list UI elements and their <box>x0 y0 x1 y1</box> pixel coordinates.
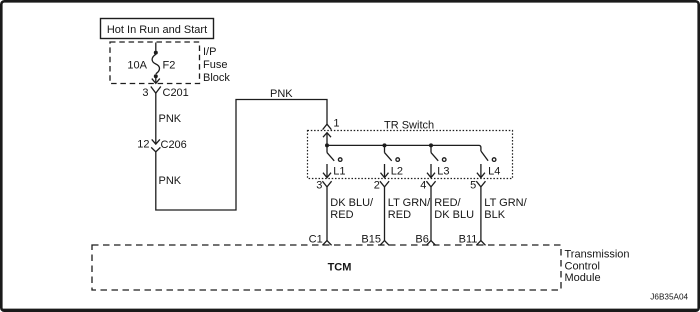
svg-text:C1: C1 <box>309 233 323 245</box>
TCM pin B15 terminal <box>380 241 389 246</box>
connector C206 female terminal (Y) <box>151 147 160 151</box>
wire RED/DK BLU (pin 4 to TCM B6) <box>430 187 432 241</box>
svg-text:B15: B15 <box>361 233 381 245</box>
svg-text:L2: L2 <box>391 166 403 178</box>
fuse F2 10A (element squiggle) <box>152 54 159 74</box>
svg-text:Control: Control <box>565 260 600 272</box>
TCM pin C1 terminal <box>322 241 331 246</box>
junction dot node L3 <box>429 143 433 147</box>
svg-text:5: 5 <box>470 179 476 191</box>
svg-text:C206: C206 <box>161 139 187 151</box>
pin 3 female terminal below TR Switch <box>322 181 331 187</box>
wire PNK (C206 to TR Switch pin 1) <box>156 100 327 211</box>
label Transmission Control Module <box>565 248 630 284</box>
svg-text:4: 4 <box>420 179 426 191</box>
svg-text:LT GRN/: LT GRN/ <box>388 197 431 209</box>
junction dot (fuse bottom) <box>154 74 158 78</box>
label I/P Fuse Block <box>203 46 230 84</box>
svg-text:F2: F2 <box>163 60 176 72</box>
wire LT GRN/BLK (pin 5 to TCM B11) <box>480 187 482 241</box>
output arrow L1 (to pin 3) <box>323 164 331 178</box>
svg-text:2: 2 <box>374 179 380 191</box>
wire label RED/DK BLU <box>434 197 474 221</box>
switch contact L2 <box>385 145 400 161</box>
power feed label box "Hot In Run and Start" <box>101 19 214 39</box>
wire label LT GRN/BLK <box>484 197 527 221</box>
svg-text:DK BLU/: DK BLU/ <box>330 197 374 209</box>
svg-text:TCM: TCM <box>328 262 352 274</box>
svg-text:BLK: BLK <box>484 209 505 221</box>
svg-text:3: 3 <box>142 87 148 99</box>
switch contact L4 <box>481 151 496 161</box>
svg-text:10A: 10A <box>127 60 147 72</box>
TCM pin B6 terminal <box>426 241 435 246</box>
svg-text:Fuse: Fuse <box>203 59 227 71</box>
TCM pin B11 terminal <box>476 241 485 246</box>
TR Switch enclosure <box>308 131 513 179</box>
svg-text:Module: Module <box>565 272 601 284</box>
svg-text:I/P: I/P <box>203 46 216 58</box>
TR Switch pin 1 female terminal <box>323 124 332 129</box>
wire PNK (C201 to C206) <box>155 93 157 144</box>
svg-text:B6: B6 <box>415 233 428 245</box>
TCM enclosure <box>92 245 561 290</box>
bus wire inside TR Switch <box>327 145 481 151</box>
svg-text:RED: RED <box>388 209 411 221</box>
pin 4 female terminal below TR Switch <box>426 181 435 187</box>
svg-text:TR Switch: TR Switch <box>384 120 434 132</box>
svg-text:LT GRN/: LT GRN/ <box>484 197 527 209</box>
wire label DK BLU/RED <box>330 197 374 221</box>
svg-text:PNK: PNK <box>270 88 293 100</box>
svg-text:1: 1 <box>333 118 339 130</box>
wire label LT GRN/RED <box>388 197 431 221</box>
junction dot node L2 <box>383 143 387 147</box>
svg-text:RED/: RED/ <box>434 197 461 209</box>
output arrow L2 (to pin 2) <box>381 164 389 178</box>
svg-text:PNK: PNK <box>159 113 182 125</box>
svg-text:C201: C201 <box>163 87 189 99</box>
junction dot node L1 <box>325 143 329 147</box>
svg-text:PNK: PNK <box>159 175 182 187</box>
connector C206 male terminal (arrow down) <box>152 139 160 144</box>
connector C201 female terminal (Y) <box>151 87 161 94</box>
output arrow L4 (to pin 5) <box>477 164 485 178</box>
svg-text:L3: L3 <box>437 166 449 178</box>
TR Switch pin 1 male terminal (arrow up, inside box) <box>323 133 331 146</box>
svg-text:Transmission: Transmission <box>565 248 630 260</box>
svg-text:B11: B11 <box>459 233 478 245</box>
connector C201 male terminal (arrow down) <box>152 78 160 83</box>
wire (feed into fuse) <box>155 43 157 51</box>
output arrow L3 (to pin 4) <box>427 164 435 178</box>
svg-text:12: 12 <box>137 139 149 151</box>
junction dot (fuse top) <box>154 51 158 55</box>
svg-text:DK BLU: DK BLU <box>434 209 474 221</box>
I/P Fuse Block enclosure <box>110 42 200 84</box>
wire LT GRN/RED (pin 2 to TCM B15) <box>384 187 386 241</box>
svg-text:RED: RED <box>330 209 353 221</box>
svg-text:J6B35A04: J6B35A04 <box>650 293 688 302</box>
pin 5 female terminal below TR Switch <box>476 181 485 187</box>
svg-text:L1: L1 <box>333 166 345 178</box>
pin 2 female terminal below TR Switch <box>380 181 389 187</box>
svg-text:Block: Block <box>203 72 230 84</box>
switch contact L3 <box>431 145 446 161</box>
switch contact L1 <box>327 145 342 161</box>
svg-text:Hot In Run and Start: Hot In Run and Start <box>107 24 207 36</box>
wire DK BLU/RED (pin 3 to TCM C1) <box>326 187 328 241</box>
svg-text:3: 3 <box>316 179 322 191</box>
svg-text:L4: L4 <box>488 166 500 178</box>
